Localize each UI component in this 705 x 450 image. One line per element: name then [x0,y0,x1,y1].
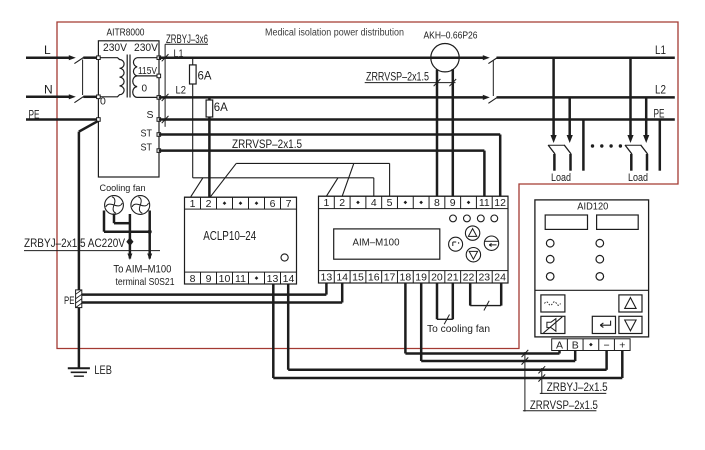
svg-text:6A: 6A [214,102,228,114]
terminal T1 right S [157,118,161,122]
wire PE to AIM pin 13 [82,293,327,296]
svg-text:+: + [619,339,625,351]
wire L1 tap to fuse F1 [192,58,194,178]
wire PE diagonal drop [79,121,98,131]
cable tick fan cable [444,315,449,325]
svg-text:8: 8 [434,197,440,209]
svg-text:2: 2 [339,197,345,209]
svg-text:7: 7 [286,198,292,210]
svg-text:0: 0 [100,96,106,108]
svg-text:L2: L2 [176,85,187,97]
wire CT1 secondary k to AIM pin 8 [436,70,439,197]
fan M1 [105,196,124,215]
svg-text:ZRRVSP–2x1.5: ZRRVSP–2x1.5 [530,400,598,412]
terminal T1 left N [97,95,101,99]
cable tick CT wire l [449,79,456,86]
svg-text:14: 14 [283,273,295,285]
svg-text:Load: Load [628,172,648,184]
cable marker line ZRBYJ-3x6 [165,43,208,45]
transformer T1 secondary winding 230-115 tap [133,58,158,76]
svg-text:1: 1 [323,197,329,209]
wire PE drop load1 [582,120,585,171]
breaker QF1 pole N [69,94,76,99]
label underline [523,410,597,412]
svg-text:ZRRVSP–2x1.5: ZRRVSP–2x1.5 [366,71,429,83]
terminal T1 right ST2 [157,149,161,153]
U1 top terminal strip [319,196,509,208]
wire PE drop load2 [659,120,662,171]
wire L incoming [26,56,69,59]
svg-text:23: 23 [478,272,490,284]
svg-text:11: 11 [235,273,246,285]
U1 pin label top 3 [356,201,360,205]
svg-text:AID120: AID120 [577,202,608,213]
svg-text:15: 15 [352,272,364,284]
svg-text:−: − [604,339,610,351]
U3 button up [619,295,642,312]
fan M2 [131,196,150,215]
wire ACLP pin 14 to AID minus [287,284,290,370]
svg-text:AKH–0.66P26: AKH–0.66P26 [424,30,478,41]
breaker QF1 link [82,60,84,96]
U3 LED r1c2 [596,239,604,247]
svg-text:ST: ST [141,128,153,140]
svg-text:6: 6 [270,198,276,210]
svg-text:AIM–M100: AIM–M100 [353,237,400,249]
breaker QF2 link [492,60,494,96]
svg-text:L1: L1 [174,48,184,60]
svg-text:ZRBYJ–2x1.5: ZRBYJ–2x1.5 [547,382,608,394]
U1 button enter [484,236,498,250]
U3 panel divider [535,289,649,291]
transformer T1 primary winding [98,58,124,97]
U2 bottom terminal strip [185,272,297,284]
wire load1 pole2 from L2 [568,97,571,138]
U1 display window [334,229,440,259]
U1 button menu [449,237,463,251]
svg-text:5: 5 [387,197,393,209]
cabinet outline (red border with notch for AID120) [57,22,678,349]
svg-text:9: 9 [450,197,456,209]
svg-text:PE: PE [64,295,75,307]
wire L2 branch from ACLP pin2 [211,163,237,196]
svg-text:230V: 230V [134,42,159,54]
U2 pin label top 4 [239,201,243,205]
U3 pin label shield [589,343,593,347]
wire load1 pole2 lower [569,154,572,171]
U3 LED r3c2 [596,273,604,281]
svg-text:11: 11 [479,197,490,209]
U1 LED 2 [464,215,471,222]
svg-text:terminal S0S21: terminal S0S21 [116,276,175,288]
wire fan bottom bus [104,230,150,233]
U3 button mute [541,316,565,333]
transformer T1 secondary winding 115-0 tap [133,76,159,98]
U1 button down [466,248,480,262]
ground LEB symbol [68,367,90,369]
wire entry ACLP pin 1 [191,178,203,197]
svg-text:ST: ST [141,142,153,154]
terminal T1 right 0 [157,96,161,100]
wire AIM pins 20-21 to cooling fan [436,283,439,319]
U2 pin label top 3 [223,201,227,205]
breaker QF2 pole L1 [483,55,490,60]
wire fan M2 right lead down [148,211,151,259]
cable tick on PE [162,116,169,123]
wire N to transformer [83,96,98,99]
U1 bottom terminal strip [319,271,509,283]
svg-text:ZRRVSP–2x1.5: ZRRVSP–2x1.5 [232,137,302,151]
svg-text:To cooling fan: To cooling fan [427,324,490,335]
terminal T1 left PE [97,118,101,122]
fuse F2 [206,100,213,117]
U3 button enter [592,316,615,333]
transformer T1 box [98,41,159,177]
wire load1 pole1 lower [553,154,556,171]
wire AIM pin 19 to AID B [420,283,423,361]
wire load2 pole1 from L1 [629,58,632,139]
svg-text:4: 4 [371,197,377,209]
U2 pin label bottom . [255,276,259,280]
svg-text:20: 20 [431,272,443,284]
cable tick on L2 [162,94,169,101]
wire ST1 [159,133,500,136]
U1 LED 1 [450,215,457,222]
wire fan M1 bottom jog [113,214,116,224]
wire load2 pole2 lower [646,154,649,171]
wire ST2 [159,149,485,152]
svg-text:115V: 115V [138,66,157,77]
ellipsis dots (more branches) [591,144,594,147]
wire drop AIM pin 5 [389,163,391,196]
U2 status LED [281,254,288,261]
svg-text:2: 2 [206,198,212,210]
power module U2 ACLP10-24 box [185,197,297,284]
U1 pin label top 6 [404,201,408,205]
svg-text:A: A [556,339,563,351]
svg-text:LEB: LEB [94,365,112,377]
wire load1 pole1 from L1 [552,58,555,139]
cable tick plus wire [538,374,545,381]
cable tick CT wire k [434,79,441,86]
U1 LED 4 [491,215,498,222]
wire entry AIM pin 1 [326,178,338,196]
U3 LED r3c1 [546,273,554,281]
svg-text:19: 19 [415,272,427,284]
svg-text:14: 14 [336,272,348,284]
cable tick B wire [522,357,529,364]
wire L2 bus [159,96,483,99]
junction fan bus [148,230,152,234]
U3 LED r2c2 [596,255,604,263]
svg-text:13: 13 [267,273,279,285]
svg-text:B: B [572,339,579,351]
svg-text:8: 8 [190,273,196,285]
svg-text:230V: 230V [103,42,128,54]
wire L1 bus [159,56,483,59]
svg-text:PE: PE [654,108,665,120]
wire ACLP pin 13 to AID plus [272,284,275,378]
svg-text:AITR8000: AITR8000 [107,28,145,39]
svg-text:17: 17 [384,272,396,284]
svg-text:21: 21 [447,272,459,284]
breaker QF1 pole L [69,55,76,60]
svg-text:16: 16 [368,272,380,284]
U3 button test [541,295,565,312]
terminal T1 right 115V [157,74,161,78]
U3 terminal strip [552,339,630,351]
PE busbar (terminal block) [76,290,82,308]
svg-text:1: 1 [190,198,196,210]
cable tick minus wire [538,366,545,373]
cable tick A wire [522,350,529,357]
wire PE main down [78,132,81,369]
svg-text:0: 0 [142,84,148,95]
U3 LED r1c1 [546,239,554,247]
breaker load2 pole1 [627,135,633,143]
wire L to transformer [83,56,98,59]
svg-text:6A: 6A [198,71,212,83]
svg-text:S: S [147,109,154,121]
wire ST1 drop to AIM pin 12 [499,135,502,197]
terminal T1 right 230V [157,56,161,60]
label underline [540,392,607,394]
U1 pin label top 7 [419,201,423,205]
breaker load1 pole2 [567,135,573,143]
svg-text:L: L [44,43,51,57]
cable tick jumper [484,301,489,311]
wire load2 pole2 from L2 [645,97,648,138]
wire jumper AIM pins 22-24 [469,283,472,306]
wire AIM pin 18 to AID A [404,283,407,354]
fuse F1 [190,65,197,84]
svg-text:L2: L2 [655,85,666,97]
cable tick on L1 [162,54,169,61]
U3 LED r2c1 [546,255,554,263]
arrow fan feed right [147,254,152,261]
breaker QF2 pole L2 [483,95,490,100]
svg-text:Medical isolation power distri: Medical isolation power distribution [265,28,404,39]
wire fan left feed down [129,214,132,259]
transformer T1 core [126,55,128,98]
wire entry AIM pin 2 [342,163,354,196]
U1 pin label top 10 [467,201,471,205]
wire PE to AIM pin 14 [82,301,342,304]
svg-text:9: 9 [206,273,212,285]
U1 LED 3 [477,215,484,222]
svg-text:ACLP10–24: ACLP10–24 [203,229,256,243]
svg-text:13: 13 [321,272,333,284]
U1 button up [465,226,479,240]
breaker load1 pole1 [551,135,557,143]
U3 button down [619,316,642,333]
wire CT1 secondary l to AIM pin 9 [452,69,455,196]
arrow fan feed left [127,254,132,261]
svg-text:Load: Load [551,172,571,184]
svg-text:ZRBYJ–2x1.5 AC220V: ZRBYJ–2x1.5 AC220V [24,236,125,250]
U2 pin label top 5 [255,201,259,205]
wire load2 pole1 lower [630,154,633,171]
svg-text:N: N [44,83,53,97]
insulation monitor U1 AIM-M100 box [319,196,509,283]
current transformer CT1 [431,44,459,72]
breaker load2 pole2 [643,135,649,143]
U2 top terminal strip [185,197,297,209]
terminal T1 left L [97,56,101,60]
svg-text:Cooling fan: Cooling fan [100,183,146,194]
cable marker power pair [541,368,543,394]
wire L1 branch to ACLP pin1 / AIM pins 1,4 [193,177,374,179]
wire fan M1 left lead [103,211,106,232]
svg-text:To AIM–M100: To AIM–M100 [113,264,171,276]
junction AC220V (diamond) [126,237,133,246]
wire drop AIM pin 4 [373,178,375,196]
wire L2 tap to fuse F2 [208,97,211,197]
wire PE incoming [26,118,98,121]
svg-text:12: 12 [494,197,506,209]
wire PE bus (S) [159,118,675,121]
svg-text:L1: L1 [655,45,666,57]
svg-text:24: 24 [494,272,506,284]
U3 display window left [545,215,587,229]
svg-text:10: 10 [219,273,231,285]
breaker load2 link [625,144,641,146]
wire ST2 drop to AIM pin 11 [483,151,486,197]
label leader line [24,250,160,252]
cable marker RS485 pair [524,352,526,412]
breaker load1 link [548,144,565,146]
svg-text:22: 22 [463,272,475,284]
cable marker line (CT) [365,82,456,84]
terminal T1 right ST1 [157,133,161,137]
U3 display window right [597,215,639,229]
display unit U3 AID120 box [535,200,649,337]
wire N incoming [26,96,69,99]
svg-text:18: 18 [400,272,412,284]
